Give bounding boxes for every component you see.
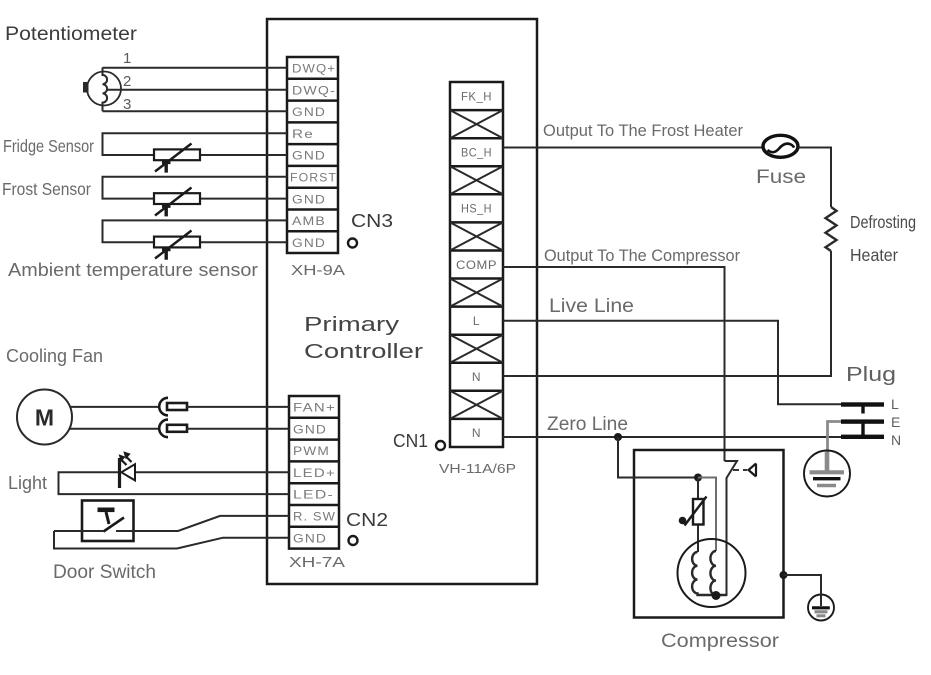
svg-text:CN3: CN3 — [351, 210, 393, 231]
svg-text:LED-: LED- — [293, 488, 334, 502]
svg-text:L: L — [891, 396, 899, 412]
compressor box — [634, 450, 784, 618]
start relay switch S2 — [725, 461, 757, 596]
svg-text:Frost Sensor: Frost Sensor — [2, 179, 91, 199]
svg-text:GND: GND — [292, 149, 326, 163]
wire BC_H to fuse — [503, 147, 763, 149]
svg-text:Controller: Controller — [304, 341, 423, 363]
svg-text:CN1: CN1 — [393, 430, 428, 451]
svg-text:N: N — [472, 426, 481, 440]
wire to start winding riser — [698, 478, 716, 552]
svg-text:Light: Light — [8, 473, 47, 493]
svg-text:XH-9A: XH-9A — [291, 263, 345, 279]
svg-text:N: N — [472, 370, 481, 384]
svg-text:COMP: COMP — [456, 258, 497, 272]
pin marker circle CN3 — [348, 239, 357, 248]
LED D1 light — [119, 451, 135, 488]
svg-text:2: 2 — [123, 73, 131, 90]
wire shell to chassis ground — [784, 575, 822, 593]
svg-text:PWM: PWM — [293, 444, 330, 458]
thermistor RT1 fridge sensor — [154, 144, 200, 173]
chassis ground symbol PE2 — [808, 593, 834, 621]
svg-text:FK_H: FK_H — [461, 90, 492, 104]
wire fan gnd connector to GND — [187, 428, 289, 430]
connector CN3 terminal block XH-9A — [287, 57, 338, 253]
svg-text:LED+: LED+ — [293, 466, 336, 480]
wire ambient sensor loop — [103, 220, 288, 242]
node junction protector top — [694, 474, 702, 482]
svg-text:HS_H: HS_H — [461, 202, 492, 216]
main winding L1 — [692, 552, 726, 595]
svg-text:BC_H: BC_H — [461, 146, 492, 160]
wire fridge sensor loop — [103, 133, 288, 155]
svg-text:N: N — [891, 432, 901, 448]
svg-text:Potentiometer: Potentiometer — [5, 24, 138, 45]
inline connector J2 fan gnd — [159, 420, 187, 438]
wire fan+ motor to connector — [70, 406, 160, 408]
potentiometer RP1 — [83, 68, 121, 112]
svg-text:Zero Line: Zero Line — [547, 414, 628, 435]
wire zero line branch into compressor — [618, 437, 698, 478]
svg-text:Defrosting: Defrosting — [850, 212, 916, 232]
svg-text:M: M — [35, 405, 54, 431]
wire pot pin2 to DWQ- — [107, 89, 287, 91]
svg-text:R. SW: R. SW — [293, 510, 336, 524]
svg-text:GND: GND — [292, 236, 326, 250]
svg-text:Primary: Primary — [304, 314, 399, 336]
wire fan gnd motor to connector — [69, 428, 160, 430]
svg-text:Output To The Compressor: Output To The Compressor — [544, 246, 740, 265]
svg-text:DWQ-: DWQ- — [292, 83, 336, 97]
pin marker circle CN2 — [349, 536, 358, 545]
svg-text:VH-11A/6P: VH-11A/6P — [439, 461, 516, 476]
start winding L2 — [710, 551, 716, 595]
protective earth symbol PE1 — [804, 451, 850, 497]
wire LED+ to lamp — [135, 471, 289, 473]
svg-text:FAN+: FAN+ — [293, 401, 336, 415]
wire door switch to R.SW — [54, 516, 289, 531]
defrosting heater R1 — [826, 207, 837, 251]
wire door switch return to GND — [54, 531, 289, 549]
wire light loop left — [59, 472, 290, 494]
svg-text:GND: GND — [292, 105, 326, 119]
node junction winding common — [712, 591, 721, 600]
wire N zero line to plug — [503, 436, 843, 438]
svg-text:1: 1 — [123, 50, 131, 67]
crossed blank cells of CN1 — [450, 110, 503, 419]
inline connector J1 fan+ — [159, 398, 187, 416]
node junction compressor shell — [780, 571, 788, 579]
wire heater down to N line — [503, 251, 831, 376]
svg-text:Output To The Frost Heater: Output To The Frost Heater — [543, 121, 743, 140]
plug contact E — [841, 419, 884, 435]
svg-text:Door Switch: Door Switch — [53, 562, 156, 583]
thermistor RT2 frost sensor — [154, 188, 200, 217]
wire fuse to heater — [798, 148, 831, 208]
svg-text:Fuse: Fuse — [756, 166, 806, 188]
svg-text:XH-7A: XH-7A — [289, 555, 345, 571]
svg-text:Live Line: Live Line — [549, 296, 634, 317]
wire frost sensor loop — [103, 177, 288, 199]
svg-text:Plug: Plug — [846, 364, 896, 386]
svg-text:L: L — [473, 314, 480, 328]
svg-text:Cooling Fan: Cooling Fan — [6, 346, 103, 366]
wire protector drop — [697, 478, 699, 553]
svg-text:GND: GND — [293, 422, 327, 436]
svg-text:Re: Re — [292, 127, 314, 141]
fan motor M1 — [17, 390, 72, 445]
svg-text:Fridge Sensor: Fridge Sensor — [3, 136, 94, 156]
compressor motor body — [678, 539, 746, 607]
svg-text:AMB: AMB — [292, 214, 326, 228]
svg-text:FORST: FORST — [290, 171, 337, 185]
wire COMP output — [503, 267, 725, 461]
node junction zero line — [614, 433, 622, 441]
svg-text:GND: GND — [293, 531, 327, 545]
plug contact N — [841, 435, 884, 439]
svg-text:DWQ+: DWQ+ — [292, 62, 336, 76]
connector CN2 terminal block XH-7A — [289, 396, 339, 549]
wire L live line to plug — [503, 321, 843, 405]
fuse F1 — [763, 135, 798, 157]
svg-text:Ambient temperature sensor: Ambient temperature sensor — [8, 260, 258, 280]
wire fan+ connector to FAN+ — [187, 406, 289, 408]
overload protector OL1 — [679, 497, 707, 526]
svg-text:Heater: Heater — [850, 245, 898, 265]
svg-text:CN2: CN2 — [346, 509, 388, 530]
primary controller box U1 — [267, 19, 537, 584]
svg-text:GND: GND — [292, 192, 326, 206]
thermistor RT3 ambient sensor — [154, 231, 200, 260]
door switch S1 — [82, 501, 134, 542]
svg-text:E: E — [891, 414, 900, 430]
wire plug E to earth — [828, 422, 842, 453]
wire pot pin1 to DWQ+ — [103, 67, 288, 69]
plug contact L — [841, 402, 884, 413]
pin marker circle CN1 — [436, 441, 445, 450]
svg-text:Compressor: Compressor — [661, 631, 780, 652]
connector CN1 terminal block VH-11A/6P — [450, 82, 503, 447]
wire pot pin3 to GND — [103, 110, 288, 112]
